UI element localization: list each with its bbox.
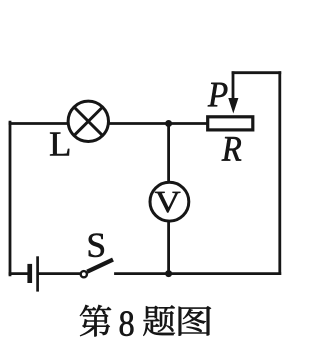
switch S pivot circle bbox=[81, 271, 87, 277]
slider P arrowhead bbox=[228, 98, 238, 114]
caption char 题 bbox=[143, 305, 175, 336]
wire: voltmeter down to node B bbox=[167, 223, 170, 274]
switch S lever bbox=[87, 260, 113, 272]
node B junction dot bbox=[165, 270, 172, 277]
wire: lamp to rheostat through node A bbox=[110, 122, 207, 125]
wire: left vertical bbox=[9, 122, 12, 275]
wire: right vertical bbox=[278, 73, 281, 274]
label R (rheostat) bbox=[222, 137, 242, 161]
node A junction dot bbox=[165, 120, 172, 127]
caption char 第 bbox=[80, 305, 111, 337]
wire: battery to switch pivot bbox=[39, 272, 80, 275]
wire: slider arm top horizontal bbox=[233, 71, 280, 74]
battery B1 positive plate long thin bbox=[36, 256, 39, 291]
caption char 8 bbox=[120, 311, 134, 336]
lamp L1 cross bbox=[74, 107, 103, 136]
label L (lamp) bbox=[50, 133, 69, 156]
wire: bottom from right corner to switch lever bbox=[116, 272, 280, 275]
wire: bottom-left to battery bbox=[10, 272, 27, 275]
caption char 图 bbox=[179, 306, 211, 336]
resistor R rheostat body bbox=[208, 117, 253, 130]
label P (slider) bbox=[208, 83, 228, 107]
voltmeter V1 circle bbox=[150, 182, 189, 221]
lamp L1 circle bbox=[68, 101, 108, 141]
label S (switch) bbox=[89, 234, 104, 258]
wire: slider arm vertical bbox=[232, 73, 235, 100]
wire: node A down to voltmeter bbox=[167, 124, 170, 181]
wire: top-left from lamp to left corner bbox=[10, 122, 67, 125]
battery B1 negative plate short thick bbox=[27, 264, 32, 283]
voltmeter V1 letter bbox=[155, 192, 180, 213]
